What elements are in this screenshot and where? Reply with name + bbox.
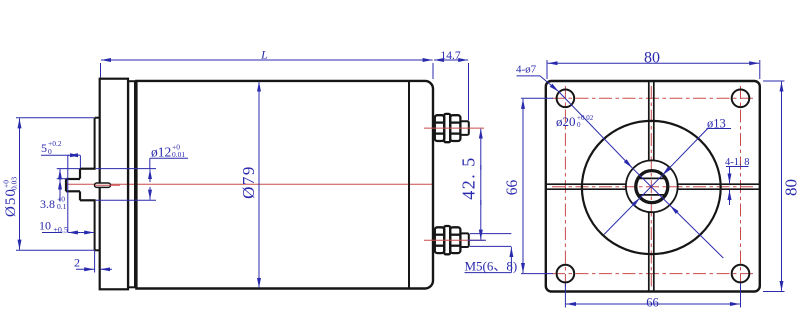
svg-text:ø13: ø13 (707, 117, 726, 131)
dimension 5 +0.2 (41, 155, 80, 232)
stud lower centerline (424, 239, 484, 241)
svg-text:Ø50: Ø50 (3, 188, 19, 217)
label 4-1.8 slot width (726, 167, 749, 206)
dimension L (101, 60, 434, 79)
svg-text:0.01: 0.01 (172, 150, 185, 159)
boss circle dia 50 (582, 121, 721, 254)
dimension 66 bottom (565, 283, 740, 308)
dimension 80 right (763, 81, 785, 292)
svg-text:80: 80 (782, 179, 800, 196)
shaft hole flats (638, 177, 665, 179)
leader dia 13 through line (640, 175, 662, 198)
svg-text:L: L (260, 48, 268, 62)
front flange plate (100, 79, 128, 290)
svg-text:±0.5: ±0.5 (54, 226, 68, 235)
svg-text:2: 2 (74, 256, 80, 270)
dimension dia 12 (96, 158, 188, 200)
hub circle dia 20 (626, 160, 678, 212)
dimension dia 79 (258, 82, 260, 288)
dimension 14.7 (434, 60, 469, 120)
svg-text:0: 0 (577, 121, 581, 129)
bolt hole top-right (732, 90, 750, 108)
svg-text:M5(6、8): M5(6、8) (465, 259, 518, 274)
dimension 3.8 (57, 169, 80, 202)
leader dia 20 opposite arrow (670, 206, 723, 259)
cross slot horizontal right (677, 184, 760, 189)
svg-text:42. 5: 42. 5 (459, 156, 479, 200)
shaft tip with key flat (66, 179, 80, 191)
terminal stud lower (435, 226, 469, 254)
label dia 13 with leader (604, 129, 731, 235)
red centerlines of flange (552, 86, 754, 287)
svg-text:ø20: ø20 (556, 114, 576, 129)
dimension 10 (42, 232, 94, 234)
svg-text:0: 0 (48, 147, 52, 156)
svg-text:0.03: 0.03 (10, 177, 19, 190)
centerline main left view (66, 183, 433, 185)
svg-text:ø12: ø12 (151, 145, 171, 160)
bolt hole bottom-left (557, 265, 575, 283)
svg-text:66: 66 (646, 296, 659, 310)
shaft hole dia 13 (636, 171, 668, 203)
svg-text:14.7: 14.7 (440, 50, 460, 62)
boss pilot (2mm) (95, 118, 100, 251)
motor body (136, 81, 433, 289)
svg-text:3.8: 3.8 (40, 197, 55, 211)
svg-text:0.1: 0.1 (57, 202, 67, 211)
terminal stud upper (435, 114, 469, 142)
dimension 80 top (547, 60, 760, 79)
keyway slot (95, 183, 111, 187)
keyway slot centerline (95, 184, 120, 186)
cross slot horizontal left (546, 184, 626, 189)
svg-text:80: 80 (644, 50, 660, 67)
svg-text:5: 5 (41, 141, 47, 155)
dimension 2 (76, 250, 112, 272)
svg-text:10: 10 (39, 219, 51, 233)
bolt hole bottom-right (732, 265, 750, 283)
rear endcap seam (408, 81, 410, 289)
dimension dia 50 (16, 118, 94, 251)
stud upper centerline (424, 127, 484, 129)
shaft (diameter 12) (80, 169, 96, 201)
cross slot vertical top (649, 81, 654, 161)
dimension 66 left (521, 98, 553, 273)
label 4-dia7 with leader (517, 76, 633, 168)
svg-text:4-1. 8: 4-1. 8 (725, 157, 750, 168)
flange square outline (546, 81, 760, 292)
cross slot vertical bottom (649, 212, 654, 292)
leader dia 20 through line (633, 168, 670, 205)
label M5(6,8) (465, 234, 512, 273)
svg-text:66: 66 (504, 180, 521, 196)
bolt hole top-left (557, 90, 575, 108)
dimension 42.5 (468, 129, 486, 241)
spacer ring (128, 81, 135, 287)
svg-text:Ø79: Ø79 (239, 165, 258, 199)
svg-text:4-ø7: 4-ø7 (516, 64, 537, 76)
